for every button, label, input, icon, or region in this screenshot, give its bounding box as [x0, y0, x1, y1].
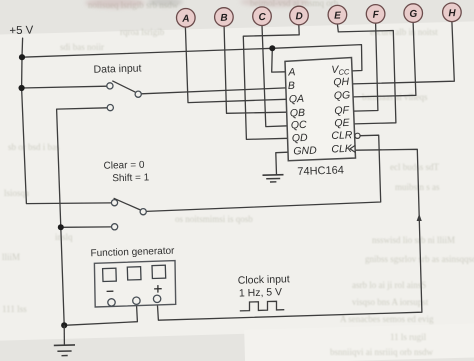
svg-text:CLR: CLR: [331, 129, 353, 142]
wire: rail to Vcc pin: [272, 45, 362, 71]
S1 lever: [112, 81, 135, 92]
wire: probe G to QG pin: [353, 22, 416, 97]
S1 bottom throw contact: [107, 105, 113, 111]
svg-text:74HC164: 74HC164: [297, 164, 344, 178]
probe point H: [443, 3, 462, 22]
svg-text:visqso bns A iorsupst: visqso bns A iorsupst: [352, 297, 429, 307]
wire: S1 pole to B pin: [141, 88, 286, 94]
wire: left rail down to switch S2 top throw: [22, 88, 112, 204]
svg-text:bsnniiqvi ai nsriiiq orb nsdw: bsnniiqvi ai nsriiiq orb nsdw: [330, 347, 433, 357]
S2 top throw contact: [111, 200, 117, 206]
svg-text:QB: QB: [290, 107, 306, 120]
svg-text:QC: QC: [291, 119, 308, 132]
svg-text:Shift = 1: Shift = 1: [112, 172, 150, 184]
probe point A: [177, 8, 196, 27]
clock waveform symbol: [240, 301, 284, 311]
probe point B: [215, 8, 234, 27]
svg-text:11 ls rugil: 11 ls rugil: [390, 332, 427, 342]
FG terminal common: [133, 297, 140, 304]
node: junction at A input on top rail: [269, 45, 275, 51]
switch S1 (Data input): [107, 81, 141, 111]
switch S2 (Clear/Shift): [111, 198, 146, 230]
svg-text:111 lss: 111 lss: [2, 304, 27, 314]
FG label minus: [107, 290, 114, 292]
wire: S1 bottom throw to ground column: [57, 108, 108, 228]
wire: left rail junction1 to junction2: [21, 57, 23, 88]
svg-text:sdi bas noiir: sdi bas noiir: [60, 42, 104, 52]
svg-text:A: A: [181, 14, 190, 25]
ground (left): [54, 325, 75, 355]
node: junction 2 on +5V rail: [19, 85, 25, 91]
svg-text:B: B: [288, 80, 295, 92]
S2 bottom throw contact: [112, 224, 118, 230]
probe point E: [328, 5, 347, 24]
svg-text:A: A: [287, 66, 295, 78]
node: junction 1 on +5V rail: [19, 54, 25, 60]
svg-text:os noitsmimsi is qosb: os noitsmimsi is qosb: [175, 214, 253, 224]
S1 pole contact: [135, 91, 141, 97]
wire: probe H to QH pin: [353, 22, 455, 84]
wire: probe A to QA pin: [185, 27, 286, 103]
wire: probe D to QD pin: [243, 25, 299, 140]
svg-text:asrb lo ai ji rol ainsS: asrb lo ai ji rol ainsS: [352, 280, 426, 290]
svg-text:Clock input: Clock input: [238, 273, 290, 287]
wire: +5V stem: [21, 38, 24, 57]
svg-text:QF: QF: [334, 104, 350, 117]
FG terminal plus: [153, 295, 160, 302]
wire: junction2 to switch S1 top throw: [22, 86, 107, 88]
svg-text:Clear = 0: Clear = 0: [103, 160, 145, 172]
svg-text:QG: QG: [334, 89, 351, 102]
wire: probe F to QF pin: [354, 23, 378, 111]
S1 top throw contact: [107, 83, 113, 89]
svg-text:nsswisd lio srb ni lliiM: nsswisd lio srb ni lliiM: [372, 235, 455, 245]
IC U1 74HC164 body: [285, 58, 356, 161]
svg-text:QA: QA: [289, 93, 305, 106]
svg-text:ecl budss sdT: ecl budss sdT: [390, 162, 439, 172]
wire: +5V top rail to junction A: [22, 48, 272, 57]
svg-text:H: H: [448, 8, 456, 19]
function generator box: [94, 261, 175, 307]
probe point G: [404, 4, 423, 23]
S2 lever: [114, 198, 141, 210]
probe point C: [253, 7, 272, 26]
probe circles A-H: [177, 3, 462, 27]
CLK edge-trigger wedge: [350, 145, 356, 152]
arrowhead on clock wire: [417, 214, 422, 221]
svg-text:Data input: Data input: [93, 62, 141, 75]
ground (IC GND): [263, 175, 284, 182]
wire: GND pin to ground: [276, 152, 288, 175]
FG button 3: [152, 265, 166, 278]
svg-text:G: G: [409, 9, 417, 20]
svg-text:E: E: [334, 10, 341, 21]
svg-text:A senacbes semos ed evig: A senacbes semos ed evig: [340, 314, 434, 324]
FG button 2: [127, 267, 141, 280]
probe point F: [366, 5, 385, 24]
svg-text:+5 V: +5 V: [9, 25, 34, 38]
svg-text:GND: GND: [293, 145, 317, 158]
pink smudges at top (decorative): [85, 0, 310, 8]
svg-text:C: C: [258, 12, 266, 23]
FG label plus: [154, 285, 162, 293]
svg-text:gnibss sgsrlov srb as asinsqqs: gnibss sgsrlov srb as asinsqqsd: [365, 254, 474, 264]
FG button 1: [103, 268, 117, 281]
wire: probe B to QB pin: [224, 26, 286, 113]
svg-text:lliiM: lliiM: [2, 252, 20, 262]
wire: junction to A pin: [272, 48, 286, 72]
wire: S2 pole to CLR (via right vertical): [146, 135, 381, 211]
svg-text:escure alb in noitst: escure alb in noitst: [370, 27, 438, 37]
svg-text:QD: QD: [292, 132, 309, 145]
svg-text:muibsm s as: muibsm s as: [395, 182, 440, 192]
wire: S2 bottom throw to ground column: [61, 226, 112, 228]
svg-text:rqroa lsrigib: rqroa lsrigib: [120, 27, 165, 37]
probe point D: [290, 6, 309, 25]
wire: probe E to QE pin: [337, 24, 396, 124]
wire: probe C to QC pin: [262, 26, 288, 127]
wire: ground column lower section: [61, 227, 64, 325]
CLR active-low bubble: [355, 133, 360, 138]
svg-text:QE: QE: [334, 117, 351, 130]
svg-text:inslq: inslq: [55, 232, 73, 242]
wire: FG + output along bottom up to CLK pin: [157, 149, 422, 320]
FG terminal minus: [108, 299, 115, 306]
node: junction bottom-left at ground: [61, 322, 67, 328]
svg-text:B: B: [220, 13, 228, 24]
svg-text:D: D: [295, 11, 303, 22]
svg-text:1 Hz, 5 V: 1 Hz, 5 V: [239, 286, 283, 299]
node: junction ground column / S2 bottom throw: [58, 224, 64, 230]
svg-text:QH: QH: [333, 76, 350, 89]
svg-text:sb or bsd i bas: sb or bsd i bas: [8, 142, 60, 152]
S2 pole contact: [140, 209, 146, 215]
wire: bottom rail ground to FG common terminal: [64, 304, 137, 325]
